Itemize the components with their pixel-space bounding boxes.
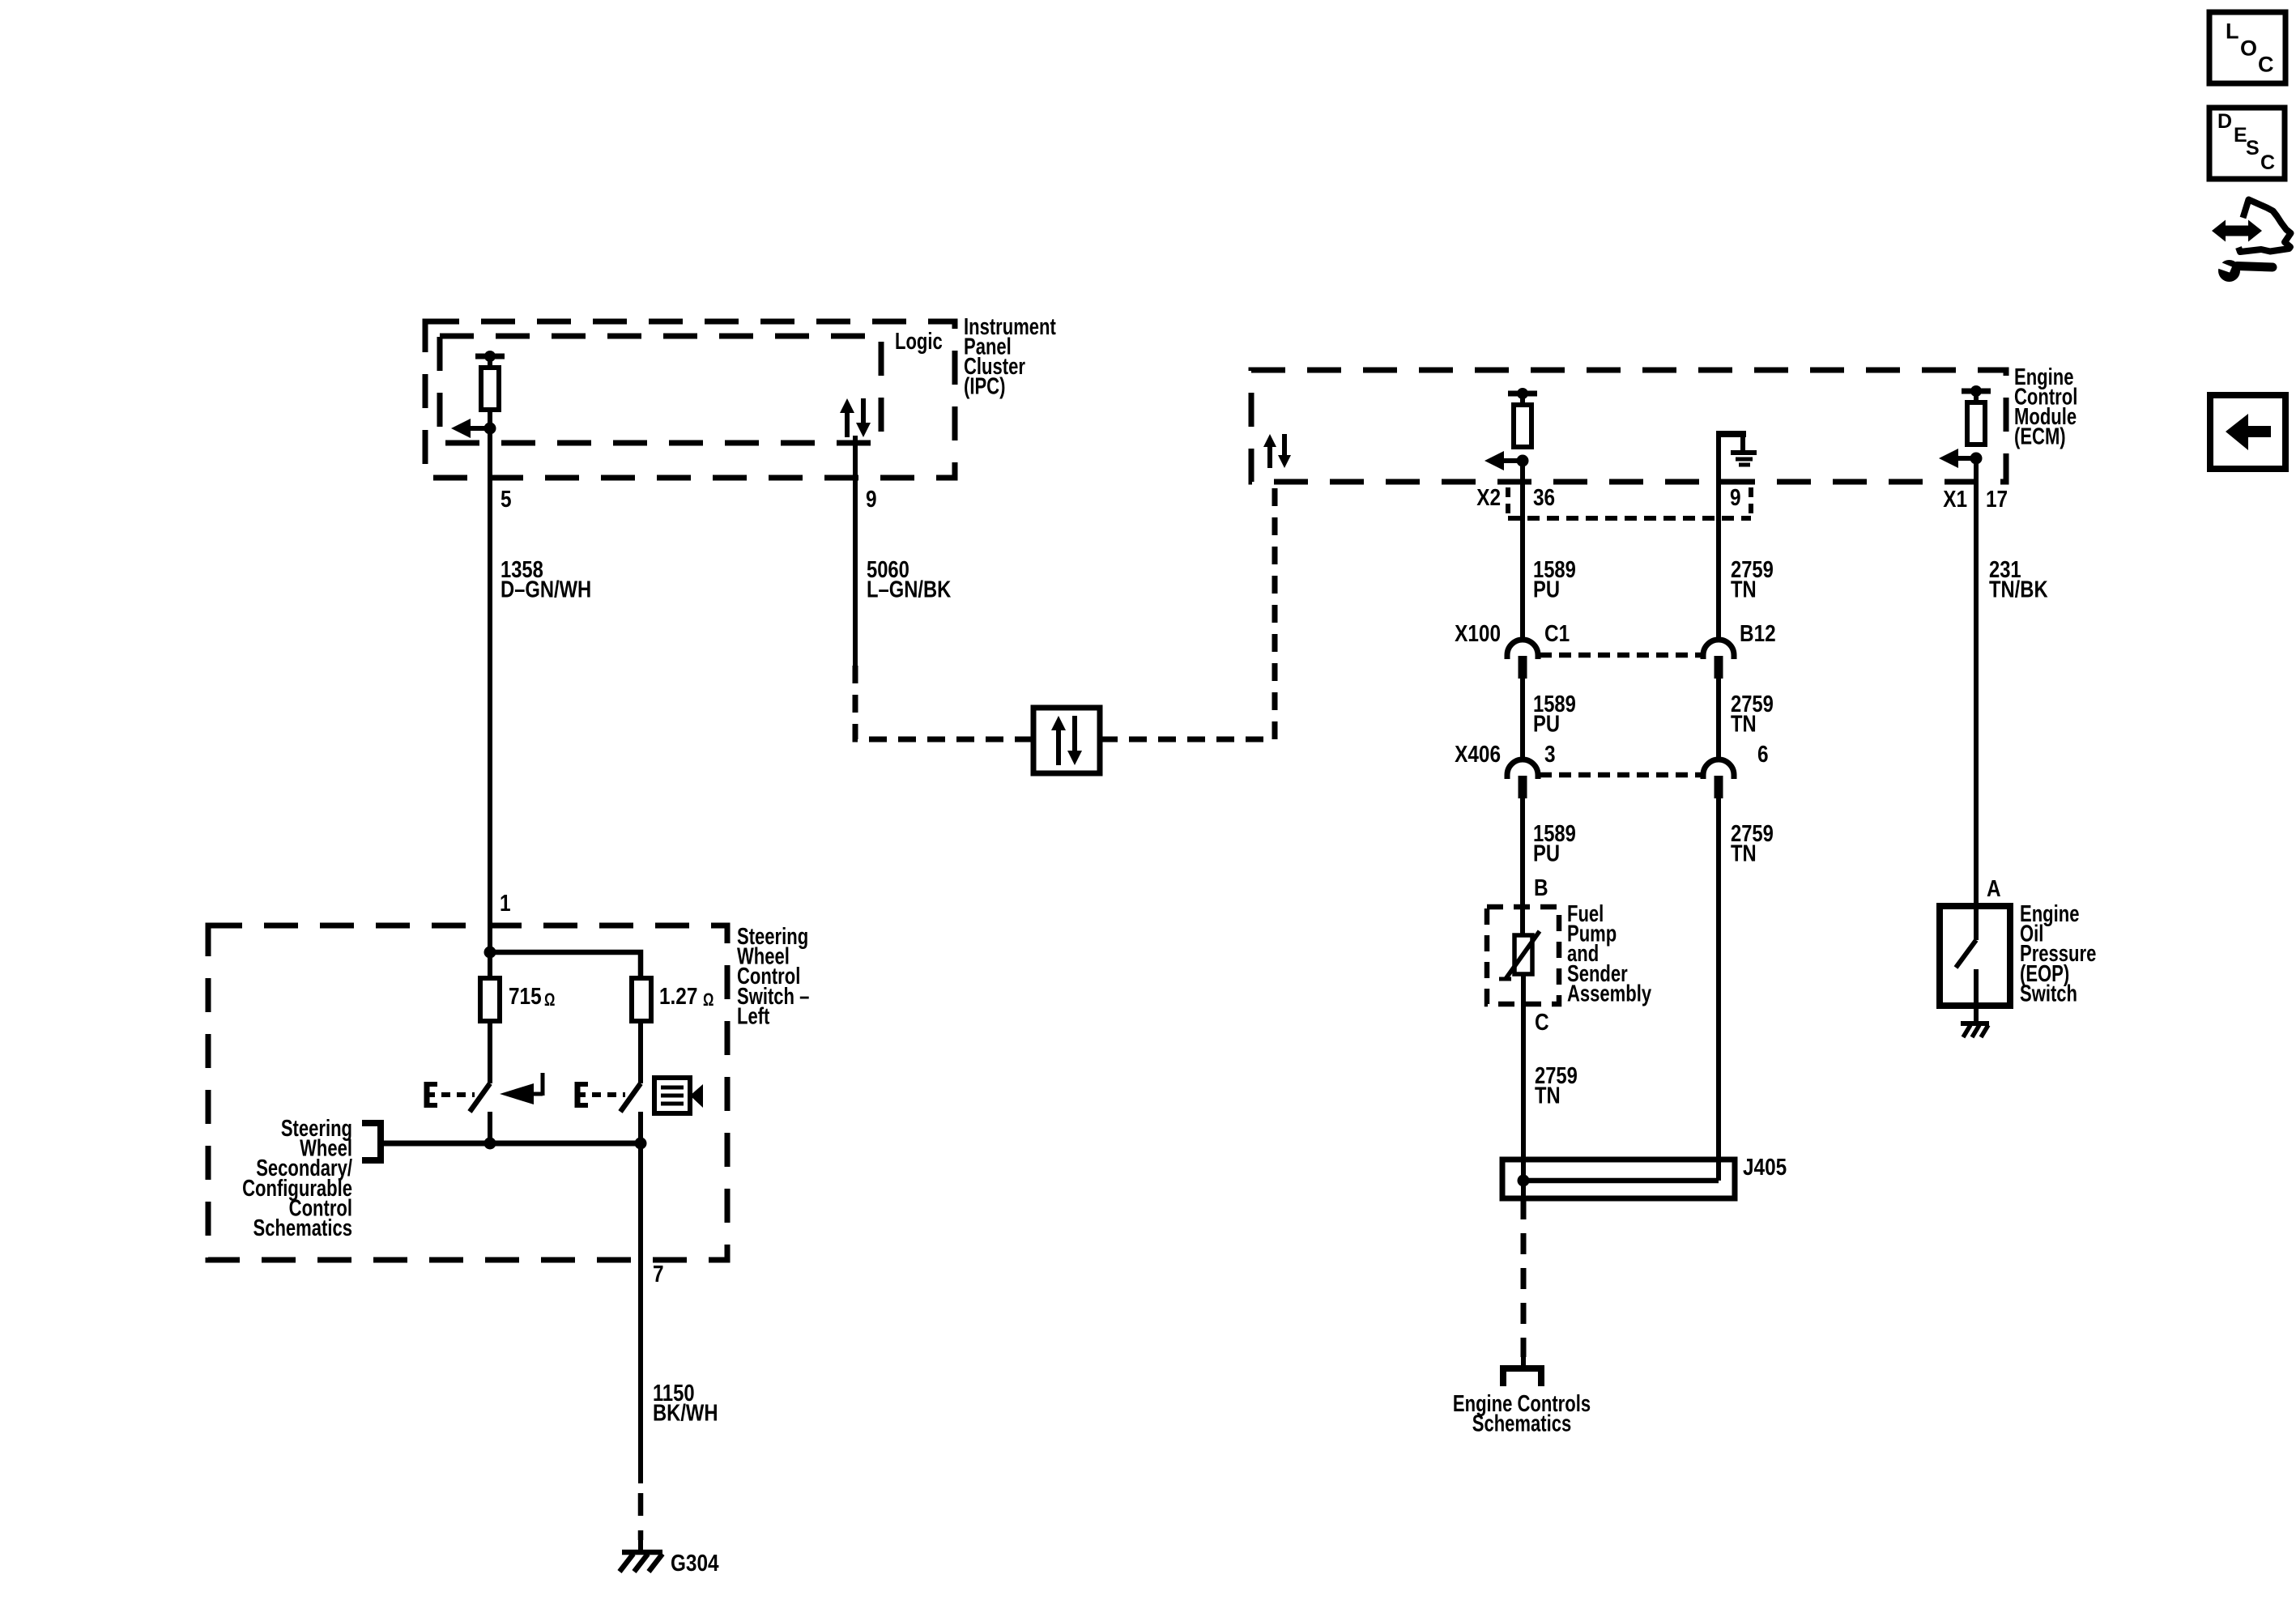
wire: 715 ohm resistor to seek switch — [488, 1021, 492, 1083]
svg-text:X406: X406 — [1455, 741, 1501, 767]
svg-text:Schematics: Schematics — [253, 1215, 352, 1241]
svg-text:TN: TN — [1731, 710, 1757, 737]
seek (previous track) icon — [500, 1073, 543, 1104]
label X406 — [1455, 741, 1501, 767]
label Instrument Panel Cluster (IPC) — [964, 314, 1056, 399]
wire: pin 7 to ground, circuit 1150 BK/WH — [638, 1143, 643, 1483]
Fuel Pump and Sender Assembly dashed box — [1487, 907, 1559, 1004]
ground symbol inside ECM at pin X2-9 — [1716, 434, 1757, 465]
wire label 2759 TN (row 3) — [1731, 820, 1774, 866]
label C1 — [1544, 620, 1570, 646]
horn icon — [654, 1078, 703, 1113]
Instrument Panel Cluster (IPC) outer dashed box — [425, 321, 955, 478]
label Engine Oil Pressure (EOP) Switch — [2020, 901, 2096, 1006]
svg-text:TN: TN — [1731, 840, 1757, 866]
label pin 1 — [500, 890, 511, 916]
svg-text:PU: PU — [1533, 576, 1560, 602]
wire label 1358 D-GN/WH — [501, 556, 591, 602]
svg-text:9: 9 — [866, 486, 877, 512]
label X2 — [1476, 484, 1501, 510]
svg-text:J405: J405 — [1743, 1154, 1787, 1180]
wire label 1589 PU (row 3) — [1533, 820, 1576, 866]
connector X100 pin B12 — [1703, 640, 1734, 679]
label pin 36 — [1533, 484, 1555, 510]
svg-text:L–GN/BK: L–GN/BK — [867, 576, 951, 602]
svg-text:L: L — [2226, 19, 2239, 44]
svg-text:1.27: 1.27 — [659, 983, 697, 1009]
dotted in-line connector box X2 at ECM pins 36 and 9 — [1508, 487, 1751, 518]
svg-text:7: 7 — [653, 1261, 664, 1287]
svg-text:X1: X1 — [1943, 486, 1967, 512]
label pin B — [1534, 874, 1548, 900]
node: horn switch bus junction — [635, 1138, 647, 1150]
svg-text:D–GN/WH: D–GN/WH — [501, 576, 591, 602]
wire label 1589 PU (row 2) — [1533, 691, 1576, 737]
label pin 7 — [653, 1261, 664, 1287]
letter C of LOC — [2258, 53, 2274, 77]
label G304 — [671, 1550, 719, 1576]
seek switch blade — [470, 1083, 490, 1112]
LOC legend box — [2209, 12, 2285, 83]
wire: seek switch lower contact to bus — [488, 1112, 492, 1143]
wire: X406 6 down to splice J405, circuit 2759 TN — [1716, 798, 1721, 1181]
wire: B12 to X406 6, circuit 2759 TN — [1716, 679, 1721, 761]
label X100 — [1455, 620, 1501, 646]
label pin A — [1987, 875, 2001, 901]
label 715 ohm — [509, 983, 542, 1009]
DESC legend box — [2209, 108, 2285, 179]
svg-text:Assembly: Assembly — [1567, 981, 1652, 1007]
svg-text:Logic: Logic — [895, 329, 943, 355]
signal arrow at ECM pin X1-17 node — [1939, 449, 1983, 468]
label Steering Wheel Control Switch - Left — [737, 924, 809, 1029]
up/down serial data arrows inside ECM box — [1263, 434, 1291, 468]
svg-text:5: 5 — [501, 486, 512, 512]
label X1 — [1943, 486, 1967, 512]
horn switch blade — [620, 1083, 641, 1112]
Engine Control Module (ECM) dashed box — [1251, 370, 2006, 482]
label pin 9 — [866, 486, 877, 512]
svg-text:(ECM): (ECM) — [2014, 424, 2066, 450]
letter L of LOC — [2226, 19, 2239, 44]
letter D of DESC — [2217, 110, 2232, 133]
label Engine Control Module (ECM) — [2014, 364, 2077, 449]
letter S of DESC — [2246, 137, 2260, 160]
svg-text:C1: C1 — [1544, 620, 1570, 646]
fuel level sender variable resistor — [1499, 931, 1540, 979]
resistor in ECM at pin X2-36 — [1508, 388, 1537, 447]
svg-text:1: 1 — [500, 890, 511, 916]
label pin 9 (ECM) — [1730, 484, 1741, 510]
svg-text:A: A — [1987, 875, 2001, 901]
wire: IPC pin 5 net, x=605 from resistor to steering switch box — [488, 410, 492, 978]
splice pack J405 — [1502, 1160, 1735, 1198]
svg-text:715: 715 — [509, 983, 542, 1009]
solenoid E symbol at seek switch — [427, 1082, 437, 1108]
letter E of DESC — [2234, 124, 2247, 147]
svg-text:C: C — [1535, 1009, 1549, 1035]
svg-text:3: 3 — [1544, 741, 1556, 767]
label Logic — [895, 329, 943, 355]
wire label 5060 L-GN/BK — [867, 556, 951, 602]
resistor 715 ohm — [480, 978, 500, 1021]
dashed actuator link to seek switch blade — [441, 1092, 475, 1097]
svg-text:PU: PU — [1533, 840, 1560, 866]
svg-text:G304: G304 — [671, 1550, 719, 1576]
back arrow legend box — [2210, 395, 2285, 469]
svg-text:TN: TN — [1535, 1082, 1561, 1108]
wire: fuel pump pin C to splice J405, circuit 2759 TN — [1521, 974, 1526, 1198]
wire label 2759 TN (row 2) — [1731, 691, 1774, 737]
label pin 17 — [1986, 486, 2008, 512]
Engine Oil Pressure (EOP) Switch box — [1940, 906, 2010, 1006]
svg-text:(IPC): (IPC) — [964, 374, 1005, 400]
resistor in ECM at pin X1-17 — [1962, 385, 1991, 445]
wire: 1.27 ohm resistor to horn switch — [638, 1021, 643, 1083]
svg-text:Ω: Ω — [544, 990, 555, 1011]
svg-text:D: D — [2217, 110, 2232, 133]
solenoid E symbol at horn switch — [577, 1082, 588, 1108]
resistor 1.27 ohm — [632, 978, 651, 1021]
svg-text:17: 17 — [1986, 486, 2008, 512]
svg-text:C: C — [2260, 151, 2275, 174]
IPC Logic inner dashed box — [440, 336, 881, 443]
svg-text:BK/WH: BK/WH — [653, 1399, 718, 1426]
letter O of LOC — [2240, 36, 2257, 61]
wire label 2759 TN (below pump) — [1535, 1062, 1578, 1108]
svg-text:36: 36 — [1533, 484, 1555, 510]
svg-text:9: 9 — [1730, 484, 1741, 510]
svg-text:Switch: Switch — [2020, 981, 2077, 1007]
svg-text:O: O — [2240, 36, 2257, 61]
off-page bracket to Steering Wheel Secondary/Configurable Control Schematics — [362, 1123, 381, 1160]
wire label 2759 TN (row 1) — [1731, 556, 1774, 602]
svg-text:C: C — [2258, 53, 2274, 77]
wire: EOP switch to ground — [1974, 1006, 1979, 1022]
label B12 — [1740, 620, 1776, 646]
wire: dashed segment to ground G304 — [638, 1493, 644, 1540]
vehicle data / service icon — [2212, 200, 2291, 283]
label Engine Controls Schematics — [1453, 1391, 1591, 1436]
svg-text:Left: Left — [737, 1004, 770, 1030]
dashed tie between X100 pins C1 and B12 — [1540, 653, 1702, 658]
up/down serial data arrows inside IPC logic box — [840, 398, 871, 437]
node: seek switch bus junction — [484, 1138, 496, 1150]
label pin 6 — [1757, 741, 1769, 767]
connector X406 pin 6 — [1703, 760, 1734, 798]
serial data up/down arrow box on dashed link — [1033, 708, 1100, 773]
wire label 1150 BK/WH — [653, 1380, 718, 1426]
svg-text:Ω: Ω — [703, 990, 714, 1011]
wire: X406 3 to fuel pump pin B, circuit 1589 PU — [1520, 798, 1525, 937]
label J405 — [1743, 1154, 1787, 1180]
wire: dashed serial data link from arrow box up to ECM — [1100, 481, 1275, 739]
letter C of DESC — [2260, 151, 2275, 174]
svg-text:X2: X2 — [1476, 484, 1501, 510]
connector X100 pin C1 — [1507, 640, 1538, 679]
wire: ECM pin X2-9 to connector B12, circuit 2759 TN — [1716, 434, 1721, 640]
Steering Wheel Control Switch - Left dashed box — [208, 926, 727, 1260]
wire: horn switch lower contact to bus — [638, 1112, 643, 1143]
wire label 1589 PU (row 1) — [1533, 556, 1576, 602]
label pin 5 — [501, 486, 512, 512]
svg-text:PU: PU — [1533, 710, 1560, 737]
chassis ground below EOP switch — [1961, 1023, 1989, 1037]
ohm symbol for 1.27 — [703, 990, 714, 1011]
wire: branch to 1.27 ohm resistor — [490, 952, 641, 978]
node: top junction of switch branches — [484, 947, 496, 959]
ground G304 — [620, 1552, 662, 1572]
svg-text:S: S — [2246, 137, 2260, 160]
label pin 3 — [1544, 741, 1556, 767]
label 1.27 ohm — [659, 983, 697, 1009]
wire: X100 C1 to X406 3, circuit 1589 PU — [1520, 679, 1525, 761]
svg-text:TN/BK: TN/BK — [1989, 576, 2048, 602]
wire: dashed serial data link from IPC pin 9 down and right — [855, 666, 1033, 739]
connector X406 pin 3 — [1507, 760, 1538, 798]
svg-text:B: B — [1534, 874, 1548, 900]
wire: dashed continuation below J405 to Engine Controls Schematics — [1521, 1198, 1527, 1357]
off-page connector bracket to Engine Controls Schematics — [1503, 1368, 1541, 1386]
wire: ground bus inside steering switch — [381, 1141, 641, 1147]
resistor in IPC (pull-up) — [475, 351, 505, 410]
label Fuel Pump and Sender Assembly — [1567, 901, 1652, 1006]
wire: ECM pin X2-36 to connector X100 C1, circuit 1589 PU — [1520, 461, 1525, 640]
label pin C — [1535, 1009, 1549, 1035]
label Steering Wheel Secondary/Configurable Control Schematics — [242, 1116, 352, 1241]
svg-text:B12: B12 — [1740, 620, 1776, 646]
svg-text:6: 6 — [1757, 741, 1769, 767]
svg-text:TN: TN — [1731, 576, 1757, 602]
svg-text:X100: X100 — [1455, 620, 1501, 646]
dashed actuator link to horn switch blade — [592, 1092, 625, 1097]
wire: ECM pin X1-17 to EOP switch pin A, circuit 231 TN/BK — [1974, 458, 1979, 906]
ohm symbol for 715 — [544, 990, 555, 1011]
signal arrow at ECM pin X2-36 node — [1485, 451, 1529, 470]
EOP switch contacts — [1956, 906, 1976, 1006]
svg-text:Schematics: Schematics — [1472, 1411, 1571, 1437]
wire: IPC pin 9 serial data, solid part — [853, 436, 858, 666]
wire label 231 TN/BK — [1989, 556, 2048, 602]
signal arrow at IPC pin 5 node — [451, 419, 496, 438]
dashed tie between X406 pins 3 and 6 — [1540, 772, 1702, 778]
